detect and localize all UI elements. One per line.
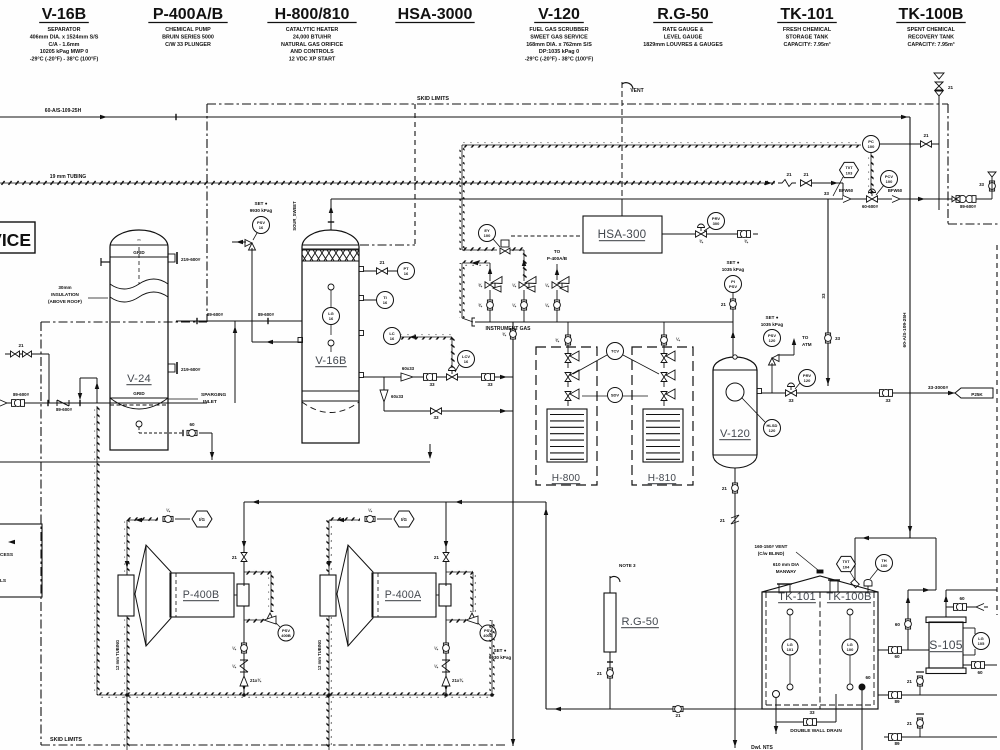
svg-text:21: 21: [675, 713, 681, 718]
svg-text:16: 16: [329, 316, 334, 321]
svg-text:TI: TI: [383, 295, 387, 300]
svg-text:100: 100: [847, 647, 854, 652]
svg-text:406mm DIA. x 1524mm S/S: 406mm DIA. x 1524mm S/S: [30, 34, 99, 40]
svg-text:PI: PI: [731, 279, 735, 284]
svg-text:CESS: CESS: [0, 552, 14, 558]
svg-text:R.G-50: R.G-50: [657, 6, 709, 23]
svg-text:RECOVERY TANK: RECOVERY TANK: [908, 34, 954, 40]
svg-text:100: 100: [484, 233, 491, 238]
svg-text:LCV: LCV: [462, 354, 470, 359]
svg-text:SKID LIMITS: SKID LIMITS: [417, 96, 449, 102]
svg-text:R.G-50: R.G-50: [621, 616, 658, 628]
svg-text:H-810: H-810: [648, 473, 677, 484]
svg-text:33: 33: [487, 382, 493, 387]
svg-text:60-A/S-109-25H: 60-A/S-109-25H: [45, 108, 82, 114]
svg-text:SET ●: SET ●: [494, 648, 507, 653]
svg-text:103: 103: [846, 170, 853, 175]
svg-text:16: 16: [259, 225, 264, 230]
svg-text:SET ●: SET ●: [727, 260, 740, 265]
svg-text:33: 33: [885, 398, 891, 403]
svg-text:AND CONTROLS: AND CONTROLS: [290, 49, 334, 55]
svg-text:60x33: 60x33: [402, 366, 415, 371]
svg-text:V-16B: V-16B: [315, 355, 346, 367]
svg-text:33: 33: [429, 382, 435, 387]
svg-text:LG: LG: [978, 636, 984, 641]
svg-text:TK-101: TK-101: [780, 6, 833, 23]
svg-text:-29°C (-20°F) - 38°C (100°F): -29°C (-20°F) - 38°C (100°F): [525, 57, 594, 63]
svg-text:C/W 33 PLUNGER: C/W 33 PLUNGER: [165, 42, 211, 48]
svg-text:100: 100: [868, 144, 875, 149]
svg-text:PCV: PCV: [885, 174, 894, 179]
svg-text:(ABOVE ROOF): (ABOVE ROOF): [48, 299, 82, 304]
svg-text:CAPACITY: 7.95m³: CAPACITY: 7.95m³: [783, 42, 830, 48]
svg-text:105: 105: [978, 641, 985, 646]
svg-text:LG: LG: [847, 642, 853, 647]
svg-text:SET ●: SET ●: [766, 315, 779, 320]
svg-text:Dwl. NTS: Dwl. NTS: [751, 745, 773, 750]
svg-text:PSV: PSV: [257, 220, 265, 225]
svg-text:-29°C (-20°F) - 38°C (100°F): -29°C (-20°F) - 38°C (100°F): [30, 57, 99, 63]
svg-text:SPARGING: SPARGING: [201, 392, 226, 398]
svg-text:33: 33: [809, 710, 815, 715]
svg-text:SWEET GAS SERVICE: SWEET GAS SERVICE: [530, 34, 588, 40]
svg-text:CATALYTIC HEATER: CATALYTIC HEATER: [286, 27, 339, 33]
svg-text:HSA-300: HSA-300: [598, 228, 647, 241]
svg-text:60: 60: [977, 670, 983, 675]
svg-text:60: 60: [894, 654, 900, 659]
svg-text:89-600#: 89-600#: [56, 407, 73, 412]
svg-text:21x¾: 21x¾: [452, 678, 463, 683]
svg-text:104: 104: [843, 564, 850, 569]
svg-text:12 mm TUBING: 12 mm TUBING: [115, 640, 120, 670]
svg-text:21: 21: [379, 260, 385, 265]
svg-text:60: 60: [189, 422, 195, 427]
svg-text:LS: LS: [0, 578, 7, 584]
svg-text:100: 100: [886, 179, 893, 184]
svg-text:T0T: T0T: [845, 165, 853, 170]
svg-text:FRESH CHEMICAL: FRESH CHEMICAL: [783, 27, 832, 33]
svg-text:P25K: P25K: [971, 392, 983, 397]
svg-text:12 VDC XP START: 12 VDC XP START: [289, 57, 336, 63]
svg-text:I/G: I/G: [199, 517, 205, 522]
svg-text:16: 16: [464, 359, 469, 364]
svg-text:24,000 BTU/HR: 24,000 BTU/HR: [293, 34, 331, 40]
svg-text:33: 33: [433, 415, 439, 420]
svg-text:V-24: V-24: [127, 373, 151, 385]
svg-text:21: 21: [18, 343, 24, 348]
svg-text:SEPARATOR: SEPARATOR: [48, 27, 81, 33]
svg-text:33-3000#: 33-3000#: [928, 385, 949, 391]
svg-text:TK-101: TK-101: [778, 591, 816, 603]
svg-text:GRID: GRID: [133, 391, 145, 396]
svg-text:30mm: 30mm: [58, 285, 71, 290]
svg-text:VENT: VENT: [630, 88, 643, 94]
svg-text:SET ●: SET ●: [255, 201, 268, 206]
svg-text:P-400B: P-400B: [183, 589, 220, 601]
svg-text:PC: PC: [868, 139, 874, 144]
svg-text:PRV: PRV: [803, 373, 811, 378]
svg-text:168mm DIA. x 762mm S/S: 168mm DIA. x 762mm S/S: [526, 42, 592, 48]
svg-text:89: 89: [894, 699, 900, 704]
svg-text:9930 kPag: 9930 kPag: [250, 208, 273, 213]
svg-text:89-600#: 89-600#: [960, 204, 977, 209]
svg-text:NOTE 3: NOTE 3: [619, 563, 636, 568]
svg-text:EY: EY: [484, 228, 490, 233]
svg-text:21: 21: [721, 302, 727, 307]
svg-text:VICE: VICE: [0, 230, 31, 250]
svg-text:V-120: V-120: [720, 428, 750, 440]
svg-text:120: 120: [769, 338, 776, 343]
svg-text:21: 21: [907, 721, 913, 726]
svg-text:19 mm TUBING: 19 mm TUBING: [50, 174, 87, 180]
svg-text:FUEL GAS SCRUBBER: FUEL GAS SCRUBBER: [529, 27, 588, 33]
svg-text:INSULATION: INSULATION: [51, 292, 79, 297]
svg-text:21: 21: [948, 85, 954, 90]
svg-text:HLSD: HLSD: [767, 423, 778, 428]
svg-text:300: 300: [713, 221, 720, 226]
svg-text:STORAGE TANK: STORAGE TANK: [786, 34, 829, 40]
svg-text:89-600#: 89-600#: [13, 392, 30, 397]
svg-text:PT: PT: [403, 266, 409, 271]
svg-text:I/G: I/G: [401, 517, 407, 522]
svg-text:219-600#: 219-600#: [181, 367, 201, 372]
svg-text:160-150# VENT: 160-150# VENT: [755, 544, 788, 549]
svg-text:21: 21: [720, 518, 726, 523]
svg-text:89-600#: 89-600#: [258, 312, 275, 317]
svg-text:TK-100B: TK-100B: [826, 591, 871, 603]
svg-text:H-800/810: H-800/810: [275, 6, 350, 23]
svg-text:CHEMICAL PUMP: CHEMICAL PUMP: [165, 27, 211, 33]
svg-text:S-105: S-105: [929, 638, 963, 652]
svg-text:21: 21: [786, 172, 792, 177]
svg-text:PRV: PRV: [712, 216, 720, 221]
svg-text:m: m: [138, 238, 141, 242]
svg-text:21: 21: [803, 172, 809, 177]
svg-text:(C/w BLIND): (C/w BLIND): [758, 551, 785, 556]
svg-text:MANWAY: MANWAY: [776, 569, 797, 574]
svg-text:INSTRUMENT GAS: INSTRUMENT GAS: [486, 326, 532, 332]
svg-text:33: 33: [979, 182, 984, 187]
svg-text:DP:1035 kPag 0: DP:1035 kPag 0: [539, 49, 579, 55]
svg-text:89-600#: 89-600#: [207, 312, 224, 317]
svg-text:TK-100B: TK-100B: [899, 6, 964, 23]
svg-text:TO: TO: [554, 249, 561, 254]
svg-text:16: 16: [404, 271, 409, 276]
svg-text:60-600#: 60-600#: [862, 204, 879, 209]
svg-text:V-16B: V-16B: [42, 6, 86, 23]
svg-text:V-120: V-120: [538, 6, 580, 23]
svg-text:33: 33: [835, 336, 841, 341]
svg-text:21: 21: [907, 679, 913, 684]
svg-text:60: 60: [895, 622, 901, 627]
svg-text:C/A - 1.6mm: C/A - 1.6mm: [49, 42, 80, 48]
svg-text:89: 89: [894, 741, 900, 746]
svg-text:219-600#: 219-600#: [181, 257, 201, 262]
svg-text:21: 21: [923, 133, 929, 138]
svg-text:LG: LG: [787, 642, 793, 647]
svg-text:BFW60: BFW60: [888, 188, 903, 193]
svg-text:120: 120: [804, 378, 811, 383]
svg-text:H-800: H-800: [552, 473, 581, 484]
svg-text:RATE GAUGE &: RATE GAUGE &: [663, 27, 704, 33]
svg-text:DOUBLE WALL DRAIN: DOUBLE WALL DRAIN: [790, 728, 842, 734]
svg-text:21: 21: [232, 555, 238, 560]
svg-text:60x33: 60x33: [391, 394, 404, 399]
svg-text:21: 21: [434, 555, 440, 560]
svg-text:P-400A/B: P-400A/B: [547, 256, 568, 261]
svg-text:INLET: INLET: [203, 399, 217, 405]
svg-text:60: 60: [865, 675, 871, 680]
svg-text:T0T: T0T: [842, 559, 850, 564]
svg-text:16: 16: [390, 336, 395, 341]
svg-text:16: 16: [383, 300, 388, 305]
svg-text:12 mm TUBING: 12 mm TUBING: [317, 640, 322, 670]
svg-text:120: 120: [769, 428, 776, 433]
svg-text:SPENT CHEMICAL: SPENT CHEMICAL: [907, 27, 956, 33]
svg-text:610 mm DIA: 610 mm DIA: [773, 562, 800, 567]
svg-text:1829mm LOUVRES & GAUGES: 1829mm LOUVRES & GAUGES: [643, 42, 723, 48]
svg-text:NATURAL GAS ORIFICE: NATURAL GAS ORIFICE: [281, 42, 343, 48]
svg-text:ATM: ATM: [802, 342, 812, 347]
svg-text:21: 21: [597, 671, 603, 676]
svg-text:SDV: SDV: [611, 393, 620, 398]
svg-text:101: 101: [787, 647, 794, 652]
svg-text:PSV: PSV: [768, 333, 776, 338]
svg-text:TCV: TCV: [611, 349, 619, 354]
svg-text:10205 kPag MWP 0: 10205 kPag MWP 0: [40, 49, 88, 55]
svg-text:60: 60: [959, 596, 965, 601]
svg-text:TH: TH: [881, 558, 886, 563]
svg-text:33: 33: [788, 398, 794, 403]
svg-text:1035 kPag: 1035 kPag: [761, 322, 784, 327]
svg-text:TO: TO: [802, 335, 809, 340]
svg-text:CAPACITY: 7.95m³: CAPACITY: 7.95m³: [907, 42, 954, 48]
svg-text:LG: LG: [328, 311, 334, 316]
svg-text:60-A/S-109-25H: 60-A/S-109-25H: [902, 312, 908, 347]
svg-text:HSA-3000: HSA-3000: [398, 6, 473, 23]
svg-text:21x¾: 21x¾: [250, 678, 261, 683]
svg-text:LC: LC: [389, 331, 394, 336]
svg-text:21: 21: [722, 486, 728, 491]
svg-text:PSV: PSV: [729, 284, 737, 289]
svg-text:SOUR_SWEET: SOUR_SWEET: [292, 201, 297, 231]
svg-text:33: 33: [824, 191, 830, 196]
svg-text:PSV: PSV: [282, 628, 290, 633]
svg-text:400B: 400B: [281, 633, 291, 638]
svg-text:BFW60: BFW60: [839, 188, 854, 193]
svg-text:100: 100: [881, 563, 888, 568]
svg-text:BRUIN SERIES 5000: BRUIN SERIES 5000: [162, 34, 214, 40]
svg-text:1035 kPag: 1035 kPag: [722, 267, 745, 272]
svg-text:P-400A: P-400A: [385, 589, 422, 601]
svg-text:33: 33: [821, 293, 826, 299]
svg-text:P-400A/B: P-400A/B: [153, 6, 223, 23]
svg-text:LEVEL GAUGE: LEVEL GAUGE: [664, 34, 703, 40]
svg-text:SKID LIMITS: SKID LIMITS: [50, 737, 82, 743]
